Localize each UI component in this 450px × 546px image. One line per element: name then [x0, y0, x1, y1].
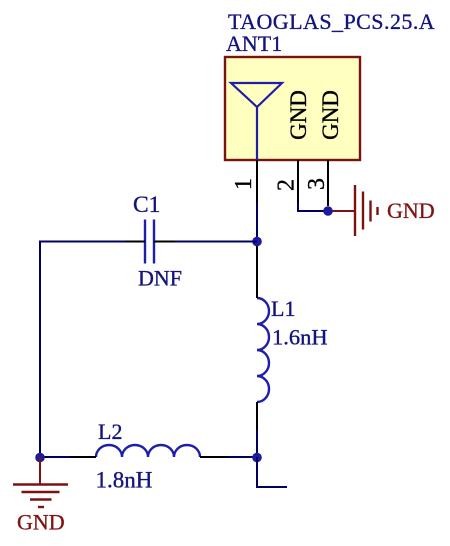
- svg-text:C1: C1: [133, 192, 160, 218]
- L2 pins: [70, 456, 96, 458]
- svg-text:1.8nH: 1.8nH: [96, 468, 153, 493]
- antenna U-body ANT1 (yellow box): [225, 57, 360, 160]
- wire L2 right to L1 node: [228, 456, 257, 458]
- pin 3: [327, 160, 329, 206]
- inductor L1: [257, 298, 269, 402]
- wire C1 right to node: [175, 241, 257, 243]
- svg-text:GND: GND: [318, 90, 343, 140]
- inductor L2: [96, 445, 200, 457]
- pin 2: [297, 160, 299, 211]
- L1 pins: [256, 246, 258, 298]
- power ground symbol right: [355, 185, 378, 236]
- junction dot right node: [252, 453, 262, 463]
- junction dot at C1 / L1 node: [252, 237, 262, 247]
- wire left node to ground: [39, 457, 41, 484]
- C1 pins: [125, 241, 145, 243]
- junction dot left node: [35, 453, 45, 463]
- svg-text:1: 1: [231, 178, 257, 190]
- svg-text:L1: L1: [271, 296, 295, 321]
- svg-text:3: 3: [304, 178, 330, 190]
- svg-text:1.6nH: 1.6nH: [272, 325, 328, 350]
- svg-text:GND: GND: [387, 198, 435, 223]
- pin 1: [256, 160, 258, 203]
- svg-text:GND: GND: [286, 90, 311, 140]
- svg-text:DNF: DNF: [138, 266, 182, 291]
- wire left corner to L2: [40, 456, 70, 458]
- antenna symbol: [231, 83, 282, 160]
- power ground symbol bottom left: [13, 485, 68, 508]
- svg-text:L2: L2: [98, 419, 122, 444]
- wire pin2 to junction: [298, 203, 328, 211]
- wire junction to right ground: [328, 210, 354, 212]
- capacitor C1: [145, 220, 154, 264]
- wire L1 bottom to L2 node: [256, 430, 258, 458]
- svg-text:ANT1: ANT1: [226, 31, 282, 56]
- wire stub bottom right: [257, 457, 287, 487]
- wire pin1 to C1 junction: [256, 203, 258, 242]
- svg-text:2: 2: [274, 179, 300, 191]
- junction dot at pin3/gnd: [323, 206, 333, 216]
- svg-text:GND: GND: [17, 510, 65, 535]
- wire C1 left to corner: [40, 242, 125, 459]
